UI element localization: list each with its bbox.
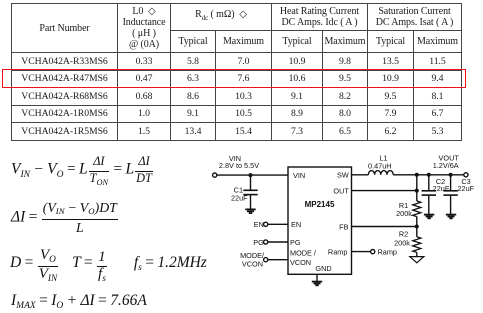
- svg-text:200k: 200k: [396, 209, 412, 218]
- svg-text:OUT: OUT: [333, 187, 349, 196]
- svg-text:R2: R2: [399, 230, 408, 239]
- svg-text:EN: EN: [254, 220, 264, 229]
- svg-text:VCON: VCON: [242, 260, 263, 269]
- svg-text:EN: EN: [291, 220, 301, 229]
- svg-text:VCON: VCON: [290, 258, 311, 267]
- svg-text:VIN: VIN: [293, 171, 305, 180]
- svg-text:1.2V/6A: 1.2V/6A: [433, 161, 459, 170]
- svg-text:Ramp: Ramp: [328, 248, 347, 257]
- svg-text:PG: PG: [290, 238, 301, 247]
- svg-text:PG: PG: [253, 238, 264, 247]
- svg-text:GND: GND: [315, 264, 331, 273]
- svg-text:22uF: 22uF: [433, 184, 450, 193]
- svg-text:SW: SW: [337, 171, 349, 180]
- svg-text:MP2145: MP2145: [305, 200, 335, 209]
- svg-text:200k: 200k: [394, 239, 410, 248]
- svg-text:MODE /: MODE /: [290, 249, 317, 258]
- svg-text:0.47uH: 0.47uH: [368, 162, 392, 171]
- svg-text:22uF: 22uF: [231, 194, 248, 203]
- svg-text:FB: FB: [339, 222, 348, 231]
- svg-text:2.8V to 5.5V: 2.8V to 5.5V: [219, 161, 259, 170]
- svg-text:22uF: 22uF: [457, 184, 474, 193]
- svg-text:Ramp: Ramp: [378, 248, 397, 257]
